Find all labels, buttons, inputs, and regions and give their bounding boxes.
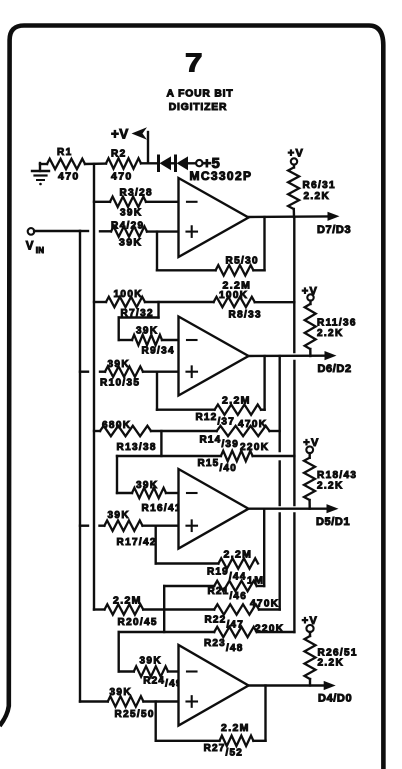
svg-text:R5/30: R5/30 <box>226 256 259 267</box>
wire row 220K <box>119 631 215 633</box>
svg-text:470: 470 <box>111 171 133 183</box>
wire R16 left <box>117 492 132 494</box>
arrow D6 <box>325 351 337 360</box>
wire node A <box>263 509 265 586</box>
label R18/43 <box>317 470 357 481</box>
svg-text:2.2M: 2.2M <box>113 595 142 607</box>
label 220K R15 <box>240 442 269 453</box>
label R20/45 <box>118 617 158 628</box>
label 39K R10 <box>108 359 130 370</box>
svg-text:R8/33: R8/33 <box>229 310 262 321</box>
label 2.2K R18 <box>317 481 344 492</box>
wire row 2 mid <box>119 316 159 318</box>
wire plus row 4 <box>80 700 108 702</box>
wire feedback 4 row <box>156 740 220 742</box>
label 100K R7 <box>114 289 143 300</box>
svg-text:R13/38: R13/38 <box>117 442 157 453</box>
svg-text:R17/42: R17/42 <box>117 537 157 548</box>
svg-text:DIGITIZER: DIGITIZER <box>169 102 228 113</box>
wire feedback 3 row <box>156 562 219 564</box>
label R7/32 <box>121 308 154 319</box>
svg-text:7: 7 <box>185 48 203 78</box>
label D6/D2 <box>318 363 352 375</box>
label R5/30 <box>226 256 259 267</box>
label D4/D0 <box>318 693 352 705</box>
wire R2-diodes <box>141 162 158 164</box>
label R27/52 <box>204 743 243 759</box>
label 2.2M R12 <box>222 395 251 407</box>
wire node B mid <box>279 462 281 506</box>
op-amp U1b <box>179 317 249 396</box>
svg-text:R19/44: R19/44 <box>207 567 246 583</box>
wire ref row 2b <box>145 301 214 303</box>
svg-text:220K: 220K <box>240 442 269 453</box>
wire feedback 1 row <box>157 269 216 271</box>
svg-text:R18/43: R18/43 <box>317 470 357 481</box>
label R19/44 <box>207 567 246 583</box>
resistor R25/50 <box>108 696 144 706</box>
terminal VIN <box>28 228 35 235</box>
wire feedback 2 row <box>157 409 215 411</box>
resistor R10/35 <box>105 367 143 377</box>
svg-text:R14/39: R14/39 <box>200 435 239 451</box>
wire R17-opamp <box>143 525 179 527</box>
svg-text:R11/36: R11/36 <box>317 318 357 329</box>
wire D1-D2 <box>171 162 176 164</box>
svg-text:39K: 39K <box>136 326 158 337</box>
svg-text:R6/31: R6/31 <box>303 180 336 191</box>
resistor R5/30 <box>216 265 254 275</box>
diode D2 <box>176 156 189 171</box>
svg-text:+V: +V <box>288 148 304 160</box>
label +5 <box>203 155 221 172</box>
wire R22-nodeB <box>259 608 280 610</box>
wire X4 vertical <box>163 586 165 632</box>
title A FOUR BIT <box>166 89 233 100</box>
svg-text:+V: +V <box>302 286 318 298</box>
label R23/48 <box>204 638 243 654</box>
label R1 <box>57 147 72 158</box>
resistor R13/38 <box>100 426 151 436</box>
label R9/34 <box>142 346 175 357</box>
resistor R4/29 <box>111 226 147 236</box>
resistor R6/31 pullup <box>288 158 299 217</box>
resistor R15/40 <box>221 451 253 461</box>
resistor R27/52 <box>220 736 254 746</box>
label R8/33 <box>229 310 262 321</box>
wire feedback 1 right <box>253 217 264 270</box>
wire R21-nodeA <box>257 585 265 587</box>
label 220K R23 <box>255 624 284 635</box>
wire row 1M <box>164 585 214 587</box>
op-amp U1d <box>179 645 249 726</box>
svg-text:680K: 680K <box>102 420 131 431</box>
label 39K R16 <box>136 480 158 491</box>
svg-text:470K: 470K <box>238 419 267 430</box>
wire R14-nodeB <box>270 430 280 432</box>
svg-text:2.2K: 2.2K <box>318 658 345 669</box>
svg-text:R24/49: R24/49 <box>143 676 182 690</box>
label 470 R1 <box>58 171 80 183</box>
wire node C mid <box>293 361 295 505</box>
wire feedback 1 left <box>156 232 158 271</box>
svg-text:R15/40: R15/40 <box>198 458 237 474</box>
wire ref row 3b <box>151 430 217 432</box>
svg-text:D5/D1: D5/D1 <box>316 516 350 528</box>
svg-text:R3/28: R3/28 <box>120 188 153 199</box>
wire plus row 1a <box>80 230 88 232</box>
label 2.2M R5 <box>223 280 252 292</box>
svg-text:100K: 100K <box>219 290 248 301</box>
svg-text:R21/46: R21/46 <box>208 586 247 602</box>
resistor R17/42 <box>104 521 142 531</box>
wire R9-opamp <box>162 339 179 341</box>
svg-text:R4/29: R4/29 <box>111 221 144 232</box>
svg-text:39K: 39K <box>120 208 142 219</box>
wire minus row 1 <box>94 201 110 203</box>
label 2.2M R20 <box>113 595 142 607</box>
wire feedback 3 left <box>154 526 156 564</box>
wire R9 left <box>119 339 132 341</box>
svg-text:470K: 470K <box>250 599 279 610</box>
ground <box>32 163 49 185</box>
wire node C lower <box>293 514 295 633</box>
wire plus row 3a <box>80 525 88 527</box>
label R15/40 <box>198 458 237 474</box>
label R26/51 <box>318 648 358 659</box>
svg-text:2.2K: 2.2K <box>317 481 344 492</box>
resistor R16/41 <box>132 488 166 498</box>
resistor R7/32 <box>106 297 145 307</box>
wire row 456 left <box>117 455 221 457</box>
wire node B lower <box>279 514 281 610</box>
wire node C upper <box>293 217 295 352</box>
label 2.2M R27 <box>221 722 250 734</box>
resistor R20/45 <box>105 604 144 614</box>
label 680K R13 <box>102 420 131 431</box>
wire ref row 4a <box>94 608 105 610</box>
label 2.2K R11 <box>317 328 344 339</box>
resistor R9/34 <box>132 335 162 345</box>
wire R23-nodeC <box>257 631 295 633</box>
resistor R26/51 pullup <box>305 625 316 686</box>
wire VIN <box>34 230 80 232</box>
wire output D4 <box>249 684 325 686</box>
wire R3-opamp <box>146 201 179 203</box>
svg-text:R25/50: R25/50 <box>115 709 155 720</box>
label +V R18 <box>303 437 319 449</box>
label MC3302P <box>190 169 252 183</box>
wire feedback 4 right <box>253 686 265 741</box>
label 39K R4 <box>119 237 142 249</box>
label 100K R8 <box>219 290 248 301</box>
svg-text:R9/34: R9/34 <box>142 346 175 357</box>
wire R1-R2 <box>85 162 106 165</box>
label R10/35 <box>100 378 140 389</box>
wire plus row 2a <box>80 371 88 373</box>
wire R4-opamp <box>147 230 179 232</box>
svg-text:R20/45: R20/45 <box>118 617 158 628</box>
wire output D6 <box>249 355 326 358</box>
label +V R11 <box>302 286 318 298</box>
arrow D7 <box>328 212 340 221</box>
VIN bus node <box>79 231 81 702</box>
label D5/D1 <box>316 516 350 528</box>
label +V R6 <box>288 148 304 160</box>
label R22/47 <box>205 615 244 631</box>
label 1M R21 <box>247 575 264 587</box>
svg-text:R10/35: R10/35 <box>100 378 140 389</box>
resistor R8/33 <box>214 297 255 307</box>
resistor R22/47 <box>214 604 259 614</box>
svg-text:IN: IN <box>36 246 44 255</box>
label R13/38 <box>117 442 157 453</box>
resistor R21/46 <box>214 581 257 591</box>
diode D1 <box>159 156 172 171</box>
wire plus row 1b <box>100 230 111 232</box>
wire R16-opamp <box>166 492 179 494</box>
label 39K R17 <box>108 510 130 521</box>
svg-text:R2: R2 <box>111 149 126 160</box>
wire step 2 <box>157 302 159 318</box>
label 39K R25 <box>110 687 132 698</box>
+V arrow supply <box>111 127 148 164</box>
page number 7 <box>185 48 203 78</box>
resistor R24/49 <box>134 666 168 676</box>
label R25/50 <box>115 709 155 720</box>
svg-text:D6/D2: D6/D2 <box>318 363 352 375</box>
label R3/28 <box>120 188 153 199</box>
svg-text:R16/41: R16/41 <box>142 503 182 514</box>
label R6/31 <box>303 180 336 191</box>
wire step 3 <box>160 431 162 456</box>
svg-text:V: V <box>26 241 35 253</box>
label VIN <box>26 241 44 255</box>
wire output D5 <box>249 508 328 510</box>
resistor R14/39 <box>217 426 270 436</box>
svg-text:R22/47: R22/47 <box>205 615 244 631</box>
op-amp U1c <box>179 469 249 549</box>
svg-text:+V: +V <box>302 615 318 627</box>
ladder bus node <box>93 164 95 610</box>
resistor R1 <box>47 159 85 169</box>
svg-text:39K: 39K <box>108 510 130 521</box>
svg-text:1M: 1M <box>247 575 264 587</box>
wire ref row 3a <box>94 430 100 432</box>
resistor R23/48 <box>214 627 257 637</box>
label 39K R3 <box>120 208 142 219</box>
svg-text:A FOUR BIT: A FOUR BIT <box>166 89 233 100</box>
wire drop 3 <box>116 456 118 493</box>
resistor R2 <box>106 158 141 168</box>
svg-text:R12/37: R12/37 <box>196 412 235 428</box>
svg-text:R1: R1 <box>57 147 72 158</box>
label R17/42 <box>117 537 157 548</box>
wire ref row 2a <box>94 301 106 303</box>
label 470K R22 <box>250 599 279 610</box>
svg-text:MC3302P: MC3302P <box>190 169 252 183</box>
label 2.2M R19 <box>224 549 253 561</box>
wire plus row 3b <box>100 525 105 527</box>
wire drop 4 <box>117 632 119 672</box>
resistor R18/43 pullup <box>304 446 315 508</box>
wire plus row 2b <box>100 371 105 373</box>
svg-text:R23/48: R23/48 <box>204 638 243 654</box>
title DIGITIZER <box>169 102 228 113</box>
svg-text:2.2M: 2.2M <box>221 722 250 734</box>
svg-text:39K: 39K <box>119 237 142 249</box>
label R16/41 <box>142 503 182 514</box>
svg-text:2.2K: 2.2K <box>304 191 331 202</box>
wire node B upper <box>279 356 281 451</box>
label 2.2K R26 <box>318 658 345 669</box>
svg-text:D7/D3: D7/D3 <box>317 224 351 236</box>
wire D2-terminal <box>188 162 196 164</box>
wire ref row 4b <box>143 608 214 610</box>
label D7/D3 <box>317 224 351 236</box>
wire row 456 right <box>253 455 295 457</box>
wire R8-nodeC <box>255 301 295 303</box>
svg-text:39K: 39K <box>110 687 132 698</box>
svg-text:2.2M: 2.2M <box>222 395 251 407</box>
resistor R3/28 <box>110 197 146 207</box>
svg-text:39K: 39K <box>136 480 158 491</box>
label R4/29 <box>111 221 144 232</box>
resistor R12/37 <box>215 405 261 415</box>
terminal +5 <box>196 160 202 166</box>
label R24/49 <box>143 676 182 690</box>
wire feedback 2 left <box>156 372 158 410</box>
svg-text:39K: 39K <box>108 359 130 370</box>
label 2.2K R6 <box>304 191 331 202</box>
wire output D7 <box>249 215 329 218</box>
label 470K R14 <box>238 419 267 430</box>
label 470 R2 <box>111 171 133 183</box>
label 39K R24 <box>140 656 162 667</box>
svg-text:100K: 100K <box>114 289 143 300</box>
resistor R19/44 <box>218 558 258 568</box>
label +V R26 <box>302 615 318 627</box>
svg-text:+V: +V <box>111 127 129 142</box>
arrow D4 <box>324 681 336 690</box>
label R14/39 <box>200 435 239 451</box>
label R12/37 <box>196 412 235 428</box>
resistor R11/36 pullup <box>305 294 316 356</box>
svg-text:470: 470 <box>58 171 80 183</box>
svg-text:D4/D0: D4/D0 <box>318 693 352 705</box>
wire feedback 2 right <box>261 356 265 410</box>
label R11/36 <box>317 318 357 329</box>
label R2 <box>111 149 126 160</box>
svg-text:39K: 39K <box>140 656 162 667</box>
svg-text:2.2K: 2.2K <box>317 328 344 339</box>
svg-text:2.2M: 2.2M <box>224 549 253 561</box>
wire R24-opamp <box>168 670 179 672</box>
label 39K R9 <box>136 326 158 337</box>
wire R24 left <box>119 670 134 672</box>
wire feedback 4 left <box>154 702 156 741</box>
wire R10-opamp <box>143 371 179 373</box>
label R21/46 <box>208 586 247 602</box>
wire drop 2 <box>117 318 119 341</box>
wire R25-opamp <box>143 700 178 702</box>
op-amp U1a <box>179 178 249 257</box>
arrow D5 <box>327 504 339 513</box>
svg-text:+V: +V <box>303 437 319 449</box>
